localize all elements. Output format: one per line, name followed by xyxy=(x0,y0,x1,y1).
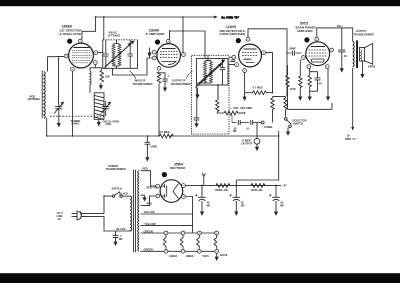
capacitor 50C5 cathode bypass xyxy=(310,72,323,92)
resistor 12BA6 cathode xyxy=(157,72,160,84)
variable capacitor C1B oscillator xyxy=(101,101,110,116)
label ROD ANTENNA xyxy=(28,94,41,101)
ground under selector switch xyxy=(286,128,290,136)
wire pot left xyxy=(217,84,224,113)
ground under 0.05MF xyxy=(145,157,149,161)
svg-text:AC: AC xyxy=(58,217,62,221)
pin 12BE6 grid xyxy=(64,54,68,58)
resistor 50C5 grid return xyxy=(286,65,289,109)
svg-text:"B": "B" xyxy=(283,184,288,188)
wire wiper to caps xyxy=(230,116,232,123)
svg-text:YELLOW: YELLOW xyxy=(144,210,156,214)
pin 50C5 heater xyxy=(325,65,329,69)
ground under last heater xyxy=(215,253,219,261)
label TUNER OUTPUT xyxy=(242,139,253,146)
wire resistor 1 bottom to caps line xyxy=(272,110,274,123)
label above 1st IF transformer xyxy=(108,30,120,37)
wire tap5 YELLOW xyxy=(141,225,193,227)
tube V1 12BE6 xyxy=(69,43,94,68)
wire grid to antenna coil xyxy=(48,56,65,71)
wire 12AV6 plate to screen rail right xyxy=(248,29,287,97)
arrow INPUT label to box xyxy=(130,71,137,79)
svg-text:ANTENNA: ANTENNA xyxy=(28,97,41,101)
stage dot B xyxy=(155,39,160,44)
output transformer core xyxy=(356,40,358,68)
svg-text:OUTPUT: OUTPUT xyxy=(242,142,253,146)
wire screen rail 12BA6 xyxy=(170,31,205,59)
pin heater rail top 3 xyxy=(197,231,201,235)
label 12AV6 xyxy=(220,25,246,36)
stage dot C xyxy=(162,172,167,177)
pin 35W4 heater2 xyxy=(182,195,186,199)
label 117V AC xyxy=(57,211,64,221)
T1 slug arrow 1 xyxy=(106,41,134,66)
power transformer T4 primary xyxy=(130,196,132,231)
tube V5 35W4 rectifier xyxy=(160,180,183,203)
pin 50C5 cathode xyxy=(307,65,311,69)
wire T1 primary bottom to 12BE6 screen xyxy=(98,52,103,54)
resistor 50C5 cathode xyxy=(308,69,311,97)
pin 12AV6 plate xyxy=(262,51,266,55)
label 12BA6 xyxy=(146,28,166,36)
label B+ PWR A xyxy=(345,134,357,141)
label 20MF xyxy=(280,200,284,207)
svg-text:.05MF: .05MF xyxy=(150,144,158,148)
svg-text:SPKR: SPKR xyxy=(368,64,375,68)
resistor filter R2 xyxy=(251,184,265,188)
wire 12AV6 cathode down xyxy=(244,73,246,97)
wire tap6 GREEN heater rail top xyxy=(141,232,217,234)
AVC arrow at 12BA6 grid xyxy=(148,48,153,59)
svg-text:BLACK: BLACK xyxy=(119,191,128,195)
pin 12BE6 top xyxy=(78,39,82,43)
svg-text:TRANSFORMER: TRANSFORMER xyxy=(106,167,126,171)
svg-text:SWITCH: SWITCH xyxy=(112,187,122,191)
svg-text:MF: MF xyxy=(207,203,211,207)
ground under speaker xyxy=(360,74,364,78)
svg-text:B+ PWR “B”: B+ PWR “B” xyxy=(222,15,240,19)
wire plug to switch xyxy=(82,196,113,213)
antenna coil L1 xyxy=(44,72,45,119)
power transformer secondary xyxy=(138,171,139,252)
pin heater rail top 2 xyxy=(181,231,185,235)
svg-text:BLACK: BLACK xyxy=(117,227,126,231)
pin 50C5 top xyxy=(315,37,319,41)
svg-text:COIL: COIL xyxy=(106,122,113,126)
wire cap to ground xyxy=(58,113,60,124)
arrow under detector cap xyxy=(194,123,198,127)
pin 12AV6 diode xyxy=(232,55,236,59)
label INPUT IF TRANSFORMER xyxy=(133,79,153,86)
wire 12BA6 plate from top rail xyxy=(182,17,184,53)
arrow OUTPUT label to box xyxy=(186,71,193,79)
bottom letterbox bar xyxy=(0,273,400,283)
stage dot E xyxy=(304,37,309,42)
T1 primary coil xyxy=(112,44,115,66)
resistor 2.2MEG on bus xyxy=(159,134,173,138)
ground under heater pin xyxy=(326,97,330,101)
label POWER TRANSFORMER xyxy=(106,164,126,171)
resistor 22K osc grid xyxy=(100,70,103,82)
svg-text:MF: MF xyxy=(241,203,245,207)
tube V4 50C5 xyxy=(306,42,330,66)
switch S1 on-off xyxy=(112,192,122,198)
T1 secondary coil xyxy=(114,40,122,69)
svg-text:IF TRANS: IF TRANS xyxy=(108,33,120,37)
svg-text:400Ω–2W: 400Ω–2W xyxy=(251,188,263,192)
pin heater rail bottom 3 xyxy=(197,249,201,253)
node B+ top rail xyxy=(95,15,240,19)
T1 slug arrow 2 xyxy=(105,44,132,68)
wire osc pin to feedback coil and 22K xyxy=(90,65,102,71)
label OSCILLATOR COIL xyxy=(103,119,120,126)
pin 12BE6 screen xyxy=(94,51,98,55)
svg-text:1000Ω–1W: 1000Ω–1W xyxy=(215,188,229,192)
label 40MF xyxy=(207,200,211,207)
resistor 4.7MEG xyxy=(245,91,273,95)
svg-text:AUDIO AMPLIFIER: AUDIO AMPLIFIER xyxy=(220,32,246,36)
svg-text:470K: 470K xyxy=(290,87,296,91)
capacitor plate tone xyxy=(338,28,345,68)
ground under cathode resistor xyxy=(308,97,312,101)
svg-text:& OSCILLATOR: & OSCILLATOR xyxy=(60,32,82,36)
pin 35W4 cathode xyxy=(182,184,186,188)
svg-text:.01: .01 xyxy=(246,127,250,131)
resistor volume pot xyxy=(224,111,241,115)
wire switch to transformer primary xyxy=(122,195,130,197)
wire bottom rail 50C5 xyxy=(288,103,333,109)
svg-text:RED: RED xyxy=(143,167,149,171)
heater element 12AV6 xyxy=(214,235,217,249)
wire antenna coil bottom to AVC bus xyxy=(46,118,48,136)
arrow under 22K xyxy=(99,83,103,90)
capacitor 12BA6 cathode bypass xyxy=(159,73,168,88)
wire tap4 YELLOW xyxy=(141,213,193,215)
svg-text:SWITCH: SWITCH xyxy=(293,121,303,125)
wire plug low side to primary bottom xyxy=(82,217,131,231)
T2 slug arrow 2 xyxy=(196,64,222,88)
svg-text:MF: MF xyxy=(233,129,237,133)
2nd IF transformer T2 dashed box xyxy=(192,55,230,134)
wire diode pins to T2 xyxy=(229,57,235,64)
pin 12AV6 top xyxy=(246,37,250,41)
ground under C3 xyxy=(274,212,278,216)
resistor 470K right 1 xyxy=(271,98,274,110)
heater element 12BE6 xyxy=(180,235,183,249)
svg-text:TRANSFORMER: TRANSFORMER xyxy=(133,82,153,86)
wire tap RED-YEL with arrow xyxy=(141,195,147,201)
label 50C5 xyxy=(296,21,317,32)
wire B+ A feed to filter node xyxy=(236,131,278,185)
svg-text:E: E xyxy=(306,38,308,42)
T2 secondary coil xyxy=(205,55,213,83)
wire speaker to ground xyxy=(361,61,363,74)
1st IF transformer T1 box xyxy=(103,40,138,69)
svg-text:12AV6: 12AV6 xyxy=(220,253,228,257)
capacitor 0.1MF line xyxy=(113,231,119,242)
svg-text:4.7 MEG: 4.7 MEG xyxy=(253,85,263,89)
pin heater rail bottom 4 xyxy=(215,249,219,253)
wire 35W4 cathode to filter rail xyxy=(185,184,281,186)
svg-text:22K: 22K xyxy=(105,75,110,79)
wire 12BE6 cathode down to bus xyxy=(71,71,73,136)
label 30MF xyxy=(241,200,245,207)
ground under grid2 resistor xyxy=(298,97,302,101)
ground under bypass cap xyxy=(163,88,167,92)
capacitor filter C3 20MF xyxy=(269,185,280,211)
wire T2 secondary to detector cap xyxy=(197,80,223,118)
arrow volume wiper xyxy=(243,97,247,101)
label OUTPUT TRANSFORMER xyxy=(354,29,374,36)
svg-text:BLU: BLU xyxy=(337,24,342,28)
wire 35W4 heater return xyxy=(186,197,193,234)
ground under 0.1MF xyxy=(113,242,117,246)
wire 12AV6 plate to 4.7MEG node xyxy=(266,53,273,93)
wire T1 secondary bottom to 12BA6 grid xyxy=(112,58,152,75)
resistor 470K right 2 xyxy=(284,98,287,110)
pin heater rail bottom 1 xyxy=(164,249,168,253)
T2 primary return arrow xyxy=(195,88,199,99)
wire B+ to 12BE6 plate xyxy=(82,17,96,39)
wire jack drop xyxy=(256,123,258,139)
label TUNING GANG xyxy=(71,119,81,126)
pin 50C5 grid xyxy=(302,56,306,60)
svg-text:MF: MF xyxy=(119,237,123,241)
resistor 50C5 grid2 xyxy=(299,60,302,97)
T2 capacitor xyxy=(220,59,226,80)
wire cathode resistor to bus xyxy=(158,84,160,136)
wire grid branch to tuning cap xyxy=(58,57,60,104)
capacitor 0.05MF on bus xyxy=(145,136,151,157)
pin heater rail top 1 xyxy=(164,231,168,235)
svg-text:RECTIFIER: RECTIFIER xyxy=(170,166,186,170)
svg-text:GREEN: GREEN xyxy=(144,247,153,251)
svg-text:— VOL VOLUME: — VOL VOLUME xyxy=(230,106,253,110)
svg-text:12BA6: 12BA6 xyxy=(169,254,178,258)
tube V3 12AV6 xyxy=(239,44,262,67)
capacitor 12AV6 grid xyxy=(231,60,236,62)
wire tap7 GREEN heater rail bottom xyxy=(141,250,217,252)
pin 12AV6 grid xyxy=(235,63,239,67)
resistor pot feed vertical xyxy=(216,100,219,112)
wire tap3 RED to 35W4 cathode pin xyxy=(141,196,156,206)
pin 12BA6 grid xyxy=(152,50,156,54)
tube V2 12BA6 xyxy=(157,44,181,68)
heater element 50C5 xyxy=(197,235,200,249)
wire output transformer to B+ A rail xyxy=(352,68,354,130)
ground under oscillator coil xyxy=(97,122,101,126)
label 12BE6 xyxy=(60,25,83,37)
pin heater rail top 4 xyxy=(215,231,219,235)
svg-text:2.2 MEG: 2.2 MEG xyxy=(160,130,170,134)
capacitor T2 detector xyxy=(194,118,200,124)
wire osc coil to ground xyxy=(98,119,100,122)
svg-text:TRANSFORMER: TRANSFORMER xyxy=(171,82,191,86)
stage dot A xyxy=(67,39,72,44)
node junction dots filter xyxy=(201,185,277,187)
capacitor coupling 0.02 to grid xyxy=(287,51,301,56)
ground under C1 xyxy=(200,212,204,216)
selector switch S2 xyxy=(285,118,292,128)
wire 50C5 plate to output transformer xyxy=(317,28,353,42)
label OUTPUT IF TRANSFORMER xyxy=(171,79,191,86)
T2 primary coil xyxy=(204,61,207,83)
svg-text:12BE6: 12BE6 xyxy=(186,254,194,258)
ground under tone cap xyxy=(340,68,344,72)
T2 inner can box xyxy=(197,59,229,86)
svg-text:PWR "A": PWR "A" xyxy=(345,137,357,141)
AVC bus wire xyxy=(47,135,279,137)
oscillator feedback coil xyxy=(90,71,91,84)
wire resistor 2 bottom to switch xyxy=(285,110,287,117)
wire tap1 RED to 35W4 plate pin xyxy=(141,171,156,186)
pin 12BA6 cathode xyxy=(157,66,161,70)
svg-text:AMPLIFIER: AMPLIFIER xyxy=(297,29,313,33)
pin 12BA6 top xyxy=(166,39,170,43)
label MF caps xyxy=(233,127,250,134)
label 0.1 MF xyxy=(119,234,123,241)
pin 12BA6 plate xyxy=(182,53,186,57)
line cord plug xyxy=(72,211,82,220)
ground under tuning cap xyxy=(57,123,61,127)
svg-text:.02MF: .02MF xyxy=(289,46,297,50)
coupling caps row xyxy=(232,120,264,125)
tuning gang dashed link xyxy=(50,115,104,117)
svg-text:50C5: 50C5 xyxy=(203,254,210,258)
T2 slug arrow 1 xyxy=(199,60,225,84)
power transformer core xyxy=(134,170,136,253)
test point V xyxy=(202,173,205,185)
pin 35W4 plate xyxy=(156,184,160,188)
svg-text:.02: .02 xyxy=(343,54,347,58)
T1 primary tuning capacitor xyxy=(103,40,109,69)
pin 12BE6 osc xyxy=(93,61,97,65)
T1 secondary capacitor xyxy=(127,40,133,69)
svg-text:TUNER: TUNER xyxy=(264,125,273,129)
output transformer T3 primary xyxy=(353,42,354,67)
resistor filter R1 xyxy=(216,184,230,188)
pin 12AV6 cathode xyxy=(243,69,247,73)
pin 50C5 screen xyxy=(330,48,334,52)
wire coil to osc coil box xyxy=(89,85,91,93)
pin heater rail bottom 2 xyxy=(181,249,185,253)
tuner output jack xyxy=(254,138,260,151)
wire B+ into 1st IF transformer xyxy=(103,17,105,40)
label SELECTOR SWITCH xyxy=(293,118,307,125)
svg-text:IF AMPLIFIER: IF AMPLIFIER xyxy=(146,32,166,36)
ground under C2 xyxy=(234,212,238,216)
oscillator coil L2 box xyxy=(94,93,104,120)
speaker cone xyxy=(364,43,372,64)
heater element 12BA6 xyxy=(163,235,166,249)
top letterbox bar xyxy=(0,0,400,6)
wire pot right to cathode drop xyxy=(241,112,244,114)
svg-text:TRANSFORMER: TRANSFORMER xyxy=(354,32,374,36)
pin 12BA6 grid2 xyxy=(152,56,156,60)
wire 50C5 heater pin down xyxy=(327,69,329,97)
capacitor filter C2 30MF xyxy=(229,185,240,211)
stage dot D xyxy=(236,38,241,43)
capacitor filter C1 40MF xyxy=(195,185,206,211)
speaker voice coil xyxy=(359,47,364,61)
variable capacitor C1A tuning xyxy=(54,102,63,113)
label 35W4 xyxy=(170,162,186,170)
wire resistor node across xyxy=(273,97,286,98)
pin 35W4 heater1 xyxy=(156,194,160,198)
svg-text:MF: MF xyxy=(280,203,284,207)
pin 12BE6 cathode xyxy=(71,67,75,71)
